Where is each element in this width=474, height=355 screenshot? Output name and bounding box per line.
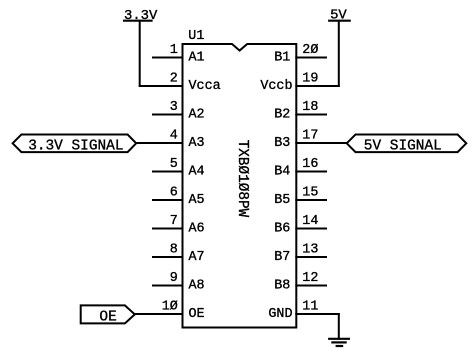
- svg-text:B6: B6: [274, 221, 290, 236]
- svg-text:GND: GND: [268, 307, 292, 322]
- svg-text:5V SIGNAL: 5V SIGNAL: [364, 139, 442, 155]
- pin name A2: [189, 107, 205, 122]
- svg-text:A5: A5: [189, 193, 205, 208]
- svg-text:2Ø: 2Ø: [302, 43, 318, 58]
- svg-text:1: 1: [170, 43, 178, 58]
- svg-text:17: 17: [302, 129, 318, 144]
- pin number 17: [302, 129, 318, 144]
- svg-text:B4: B4: [274, 164, 290, 179]
- pin 20 wire (B1): [296, 57, 326, 59]
- pin name A3: [189, 136, 205, 151]
- net flag text 3.3V SIGNAL: [28, 139, 123, 155]
- svg-text:18: 18: [302, 100, 318, 115]
- wire 5V supply drop to pin 19: [338, 21, 340, 86]
- net label 3.3V: [124, 8, 158, 24]
- svg-text:B1: B1: [274, 50, 290, 65]
- pin number 15: [302, 186, 318, 201]
- svg-text:OE: OE: [189, 307, 205, 322]
- svg-text:5V: 5V: [330, 7, 347, 23]
- svg-text:3.3V SIGNAL: 3.3V SIGNAL: [28, 139, 123, 155]
- svg-text:B5: B5: [274, 193, 290, 208]
- IC U1 body outline (TXB0108PW, box with V-notch): [183, 44, 297, 328]
- svg-text:3.3V: 3.3V: [124, 8, 158, 24]
- svg-text:Vcca: Vcca: [189, 79, 221, 94]
- svg-text:A7: A7: [189, 250, 205, 265]
- pin name A1: [189, 50, 205, 65]
- svg-text:13: 13: [302, 243, 318, 258]
- pin name A5: [189, 193, 205, 208]
- svg-text:16: 16: [302, 157, 318, 172]
- net flag OE outline: [81, 305, 135, 323]
- pin name B4: [274, 164, 290, 179]
- svg-text:A2: A2: [189, 107, 205, 122]
- pin number 2: [170, 72, 178, 87]
- pin name GND: [268, 307, 292, 322]
- pin name A6: [189, 221, 205, 236]
- svg-text:U1: U1: [188, 29, 204, 44]
- svg-text:12: 12: [302, 271, 318, 286]
- pin number 16: [302, 157, 318, 172]
- svg-text:14: 14: [302, 214, 318, 229]
- pin number 13: [302, 243, 318, 258]
- svg-text:15: 15: [302, 186, 318, 201]
- pin number 3: [170, 100, 178, 115]
- svg-text:B3: B3: [274, 136, 290, 151]
- pin 7 wire (A6): [153, 228, 183, 230]
- pin name B8: [274, 278, 290, 293]
- net flag text 5V SIGNAL: [364, 139, 442, 155]
- svg-text:3: 3: [170, 100, 178, 115]
- pin number 1: [170, 43, 178, 58]
- pin 15 wire (B5): [296, 199, 326, 201]
- pin 2 wire (Vcca): [140, 85, 183, 87]
- svg-text:Vccb: Vccb: [260, 79, 292, 94]
- pin name A8: [189, 278, 205, 293]
- pin 8 wire (A7): [153, 256, 183, 258]
- svg-text:A6: A6: [189, 221, 205, 236]
- pin number 8: [170, 243, 178, 258]
- ground symbol (3 bars): [328, 339, 350, 346]
- pin 14 wire (B6): [296, 228, 326, 230]
- pin number 9: [170, 271, 178, 286]
- svg-text:A4: A4: [189, 164, 205, 179]
- pin name A4: [189, 164, 205, 179]
- pin number 19: [302, 72, 318, 87]
- pin 9 wire (A8): [153, 285, 183, 287]
- pin 1 wire (A1): [153, 57, 183, 59]
- pin 3 wire (A2): [153, 114, 183, 116]
- svg-text:TXBØ1Ø8PW: TXBØ1Ø8PW: [234, 140, 250, 218]
- pin 18 wire (B2): [296, 114, 326, 116]
- svg-text:A3: A3: [189, 136, 205, 151]
- power symbol 5V bar: [328, 20, 351, 22]
- pin number 14: [302, 214, 318, 229]
- net flag 5V SIGNAL outline: [347, 135, 467, 153]
- pin name B5: [274, 193, 290, 208]
- pin 10 wire (OE flag to box): [135, 313, 183, 315]
- pin 4 wire (A3 to 3.3V SIGNAL flag): [136, 142, 183, 144]
- svg-text:8: 8: [170, 243, 178, 258]
- pin name B3: [274, 136, 290, 151]
- svg-text:11: 11: [302, 300, 318, 315]
- wire GND drop from pin 11: [338, 314, 340, 339]
- svg-text:A1: A1: [189, 50, 205, 65]
- pin number 7: [170, 214, 178, 229]
- pin number 4: [170, 129, 178, 144]
- svg-text:2: 2: [170, 72, 178, 87]
- net label 5V: [330, 7, 347, 23]
- pin 19 wire (Vccb to 5V rail): [296, 85, 339, 87]
- svg-text:OE: OE: [99, 309, 116, 325]
- svg-text:1Ø: 1Ø: [162, 300, 178, 315]
- pin name B2: [274, 107, 290, 122]
- pin number 12: [302, 271, 318, 286]
- pin number 20: [302, 43, 318, 58]
- wire 3.3V supply drop to pin 2: [139, 21, 141, 86]
- svg-text:9: 9: [170, 271, 178, 286]
- pin 17 wire (B3 to 5V SIGNAL flag): [296, 142, 347, 144]
- svg-text:6: 6: [170, 186, 178, 201]
- net flag 3.3V SIGNAL outline: [13, 135, 137, 153]
- pin name Vccb: [260, 79, 292, 94]
- pin 6 wire (A5): [153, 199, 183, 201]
- pin name Vcca: [189, 79, 221, 94]
- svg-text:7: 7: [170, 214, 178, 229]
- pin 5 wire (A4): [153, 171, 183, 173]
- refdes U1: [188, 29, 204, 44]
- pin 16 wire (B4): [296, 171, 326, 173]
- pin number 10: [162, 300, 178, 315]
- svg-text:19: 19: [302, 72, 318, 87]
- pin number 11: [302, 300, 318, 315]
- svg-text:B2: B2: [274, 107, 290, 122]
- pin 13 wire (B7): [296, 256, 326, 258]
- pin number 6: [170, 186, 178, 201]
- value TXB0108PW (rotated): [234, 140, 250, 218]
- pin name B1: [274, 50, 290, 65]
- svg-text:A8: A8: [189, 278, 205, 293]
- net flag text OE: [99, 309, 116, 325]
- pin number 18: [302, 100, 318, 115]
- svg-text:B7: B7: [274, 250, 290, 265]
- power symbol 3.3V bar: [123, 20, 153, 22]
- pin number 5: [170, 157, 178, 172]
- svg-text:B8: B8: [274, 278, 290, 293]
- pin 12 wire (B8): [296, 285, 326, 287]
- pin 11 wire (GND to ground): [296, 313, 339, 315]
- pin name OE: [189, 307, 205, 322]
- svg-text:4: 4: [170, 129, 178, 144]
- pin name A7: [189, 250, 205, 265]
- pin name B7: [274, 250, 290, 265]
- pin name B6: [274, 221, 290, 236]
- svg-text:5: 5: [170, 157, 178, 172]
